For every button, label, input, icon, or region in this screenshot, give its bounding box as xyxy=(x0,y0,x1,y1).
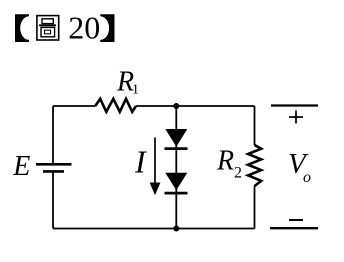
svg-text:20: 20 xyxy=(68,9,100,45)
svg-text:R: R xyxy=(216,145,234,176)
svg-text:o: o xyxy=(303,169,311,186)
svg-text:2: 2 xyxy=(234,165,242,182)
svg-text:1: 1 xyxy=(132,83,139,98)
svg-text:I: I xyxy=(134,144,147,180)
svg-text:E: E xyxy=(12,151,30,182)
